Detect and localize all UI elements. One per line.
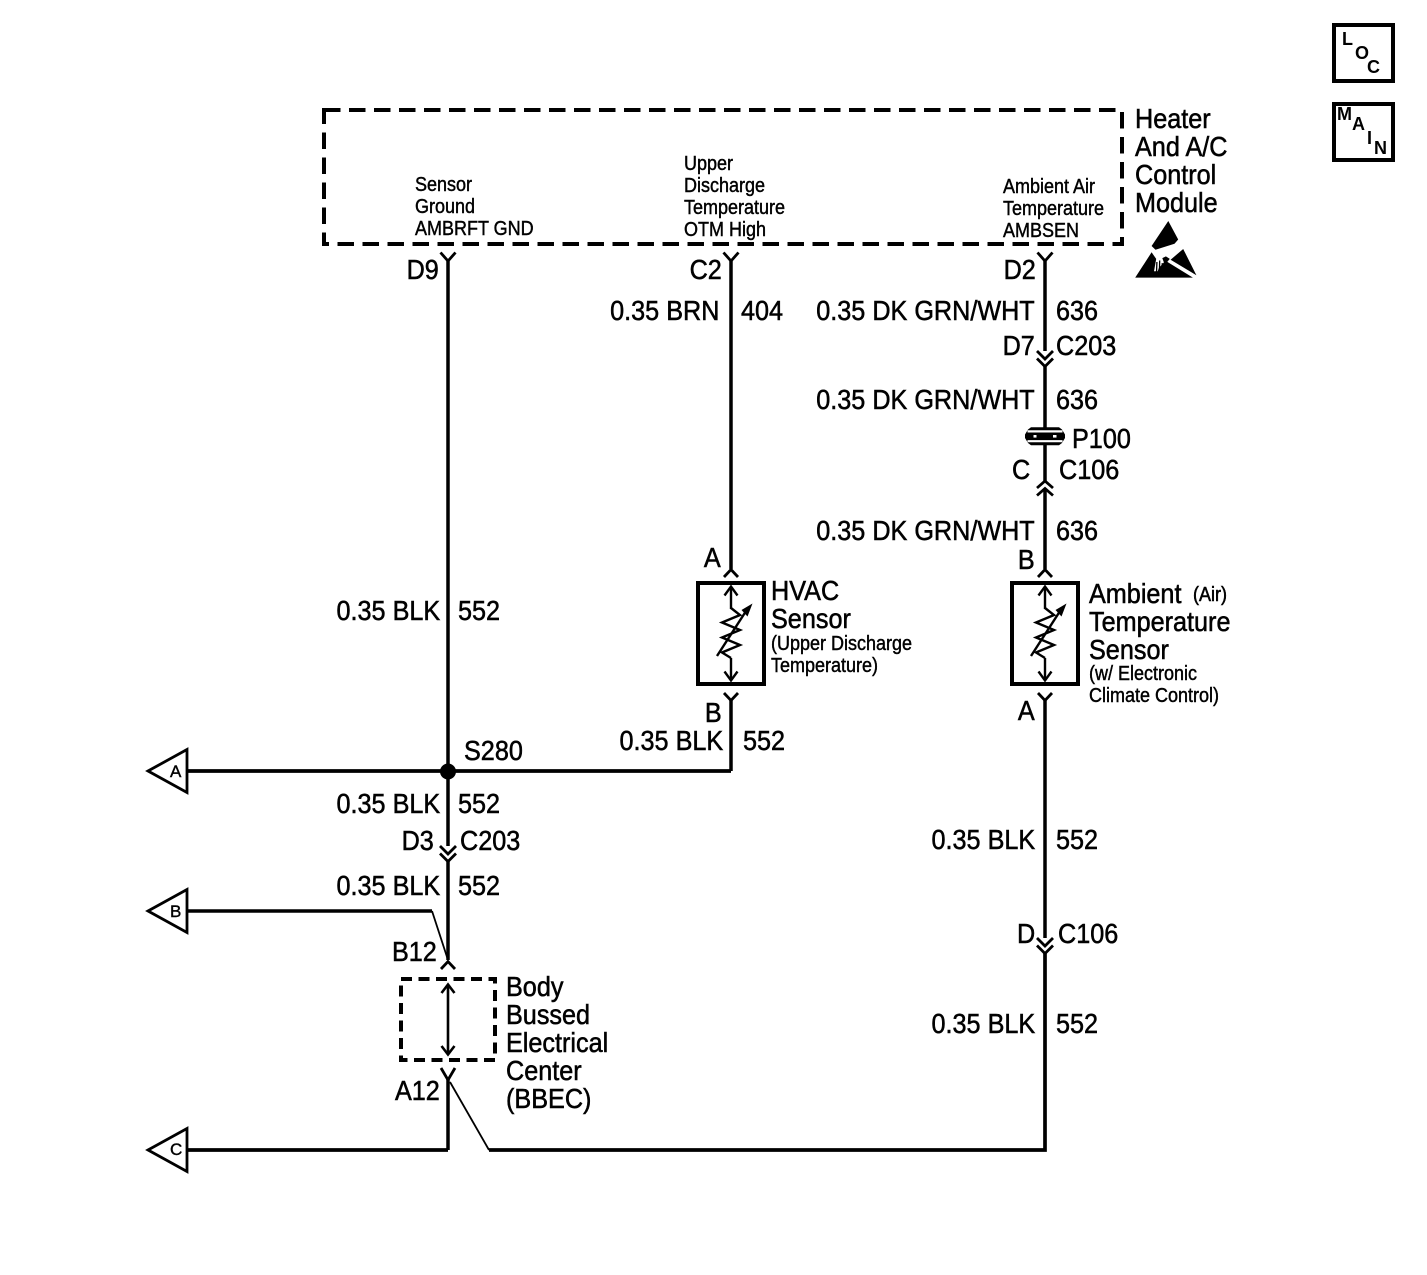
- wire label 0.35 DK GRN/WHT (row 2): [792, 386, 1035, 414]
- wire 552 from D9 down to splice S280: [446, 261, 450, 771]
- wire label 0.35 BLK (above B12): [325, 872, 440, 900]
- wire 404 from C2 down to HVAC sensor pin A: [729, 261, 733, 569]
- wire number 636 (row 1): [1056, 297, 1103, 325]
- BBEC pin B12 connector (inverted Y at wire end): [441, 962, 455, 970]
- wire number 636 (row 2): [1056, 386, 1103, 414]
- pin label C2: [686, 256, 722, 284]
- LOC reference box: [1334, 25, 1393, 81]
- connector label C106 (lower): [1058, 920, 1125, 948]
- wire number 404: [741, 297, 788, 325]
- wire label 0.35 BRN: [598, 297, 719, 325]
- triangle A letter: [170, 763, 181, 780]
- Ambient sensor pin label B: [1016, 546, 1035, 574]
- connector pin D2 (female Y symbol): [1038, 253, 1053, 262]
- ESD sensitive device symbol: [1135, 221, 1196, 278]
- diagonal wire from A12 to bottom horizontal run: [450, 1082, 489, 1150]
- wire label 0.35 BLK (ambient lower 1): [920, 826, 1035, 854]
- HVAC sensor pin label B: [703, 699, 722, 727]
- Ambient Temperature Sensor thermistor symbol: [1031, 587, 1067, 681]
- wire 636 from P100 down to connector C106: [1043, 444, 1047, 481]
- wire from A12 down to triangle C run: [446, 1079, 450, 1150]
- in-line connector C106 pin C (double chevron up): [1037, 481, 1053, 496]
- connector label C203 (upper): [1056, 332, 1123, 360]
- MAIN box letters: [1337, 105, 1352, 123]
- pin label D9: [403, 256, 439, 284]
- Body Bussed Electrical Center dashed box: [401, 979, 495, 1060]
- pin label D3: [398, 827, 434, 855]
- wire label 0.35 BLK (below S280): [325, 790, 440, 818]
- wire 552 from Ambient sensor pin A down to connector C106: [1043, 700, 1047, 938]
- wire 636 from C106 down to Ambient Temperature Sensor pin B: [1043, 489, 1047, 570]
- in-line connector C106 pin D (double chevron down): [1037, 938, 1053, 954]
- splice S280 junction dot: [440, 764, 456, 780]
- HVAC sensor pin A connector (inverted Y at wire end): [724, 570, 738, 578]
- off-page triangle A: [148, 750, 187, 793]
- wire number 552 (above B12): [458, 872, 505, 900]
- wire number 552 (HVAC B wire): [743, 727, 790, 755]
- wire label 0.35 DK GRN/WHT (row 1): [792, 297, 1035, 325]
- pin label D2: [1000, 256, 1036, 284]
- Heater And A/C Control Module dashed box: [324, 110, 1122, 244]
- HVAC sensor pin label A: [702, 544, 721, 572]
- BBEC internal through-arrow: [442, 985, 455, 1055]
- wire label 0.35 BLK (HVAC B wire): [608, 727, 723, 755]
- Ambient sensor pin A connector (Y below box): [1038, 693, 1052, 701]
- wire number 552 (D9 wire): [458, 597, 505, 625]
- wire 552 from C106 down to bottom horizontal run: [489, 954, 1045, 1151]
- wire label 0.35 BLK (D9 wire): [325, 597, 440, 625]
- splice label P100: [1072, 425, 1137, 453]
- module label Upper Discharge Temperature OTM High: [684, 153, 796, 241]
- wire number 552 (below S280): [458, 790, 505, 818]
- horizontal wire from triangle C to A12 drop: [188, 1148, 448, 1152]
- Ambient sensor pin label A: [1016, 697, 1035, 725]
- horizontal wire from triangle A through splice S280 to HVAC pin B drop: [188, 769, 731, 773]
- connector pin D9 (female Y symbol): [441, 253, 456, 262]
- wire label 0.35 BLK (ambient lower 2): [920, 1010, 1035, 1038]
- wire 636 from D2 down to connector C203: [1043, 261, 1047, 351]
- Ambient sensor pin B connector (inverted Y at wire end): [1038, 570, 1052, 578]
- splice label S280: [464, 737, 529, 765]
- module label Sensor Ground AMBRFT GND: [415, 174, 547, 240]
- in-line connector C203 pin D3 (double chevron down): [440, 846, 456, 862]
- wire number 636 (row 3): [1056, 517, 1103, 545]
- Ambient Temperature Sensor box: [1012, 583, 1078, 684]
- off-page triangle B: [148, 890, 187, 933]
- connector label C203 (lower): [460, 827, 527, 855]
- LOC box letters: [1342, 30, 1353, 48]
- BBEC name block: [506, 973, 620, 1113]
- pin label A12: [390, 1077, 440, 1105]
- connector label C106 (upper): [1059, 456, 1126, 484]
- module label Ambient Air Temperature AMBSEN: [1003, 176, 1115, 242]
- wire number 552 (ambient lower 2): [1056, 1010, 1103, 1038]
- pin label C: [1010, 456, 1030, 484]
- in-line connector C203 pin D7 (double chevron down): [1037, 351, 1053, 367]
- triangle C letter: [170, 1141, 182, 1158]
- splice pack P100 symbol: [1025, 427, 1065, 445]
- pin label B12: [387, 938, 437, 966]
- triangle B letter: [170, 903, 181, 920]
- module name Heater And A/C Control Module: [1135, 105, 1238, 217]
- Ambient Temperature Sensor name block: [1089, 580, 1246, 664]
- HVAC sensor pin B connector (Y below box): [724, 693, 738, 701]
- wire number 552 (ambient lower 1): [1056, 826, 1103, 854]
- wire 636 from C203 down to splice P100: [1043, 367, 1047, 429]
- wire 552 from HVAC sensor pin B down to horizontal run: [729, 700, 733, 771]
- MAIN reference box: [1334, 104, 1393, 160]
- HVAC Sensor thermistor symbol: [717, 587, 753, 681]
- HVAC Sensor box: [698, 583, 764, 684]
- off-page triangle C: [148, 1129, 187, 1172]
- pin label D7: [999, 332, 1035, 360]
- wire label 0.35 DK GRN/WHT (row 3): [792, 517, 1035, 545]
- HVAC Sensor name block: [771, 577, 860, 633]
- wire 552 from C203 down to BBEC pin B12: [446, 862, 450, 961]
- BBEC pin A12 connector (Y below box): [441, 1068, 455, 1080]
- wire 552 from S280 down to connector C203: [446, 771, 450, 846]
- wire from triangle B to BBEC pin B12: [188, 911, 448, 960]
- connector pin C2 (female Y symbol): [724, 253, 739, 262]
- pin label D: [1015, 920, 1035, 948]
